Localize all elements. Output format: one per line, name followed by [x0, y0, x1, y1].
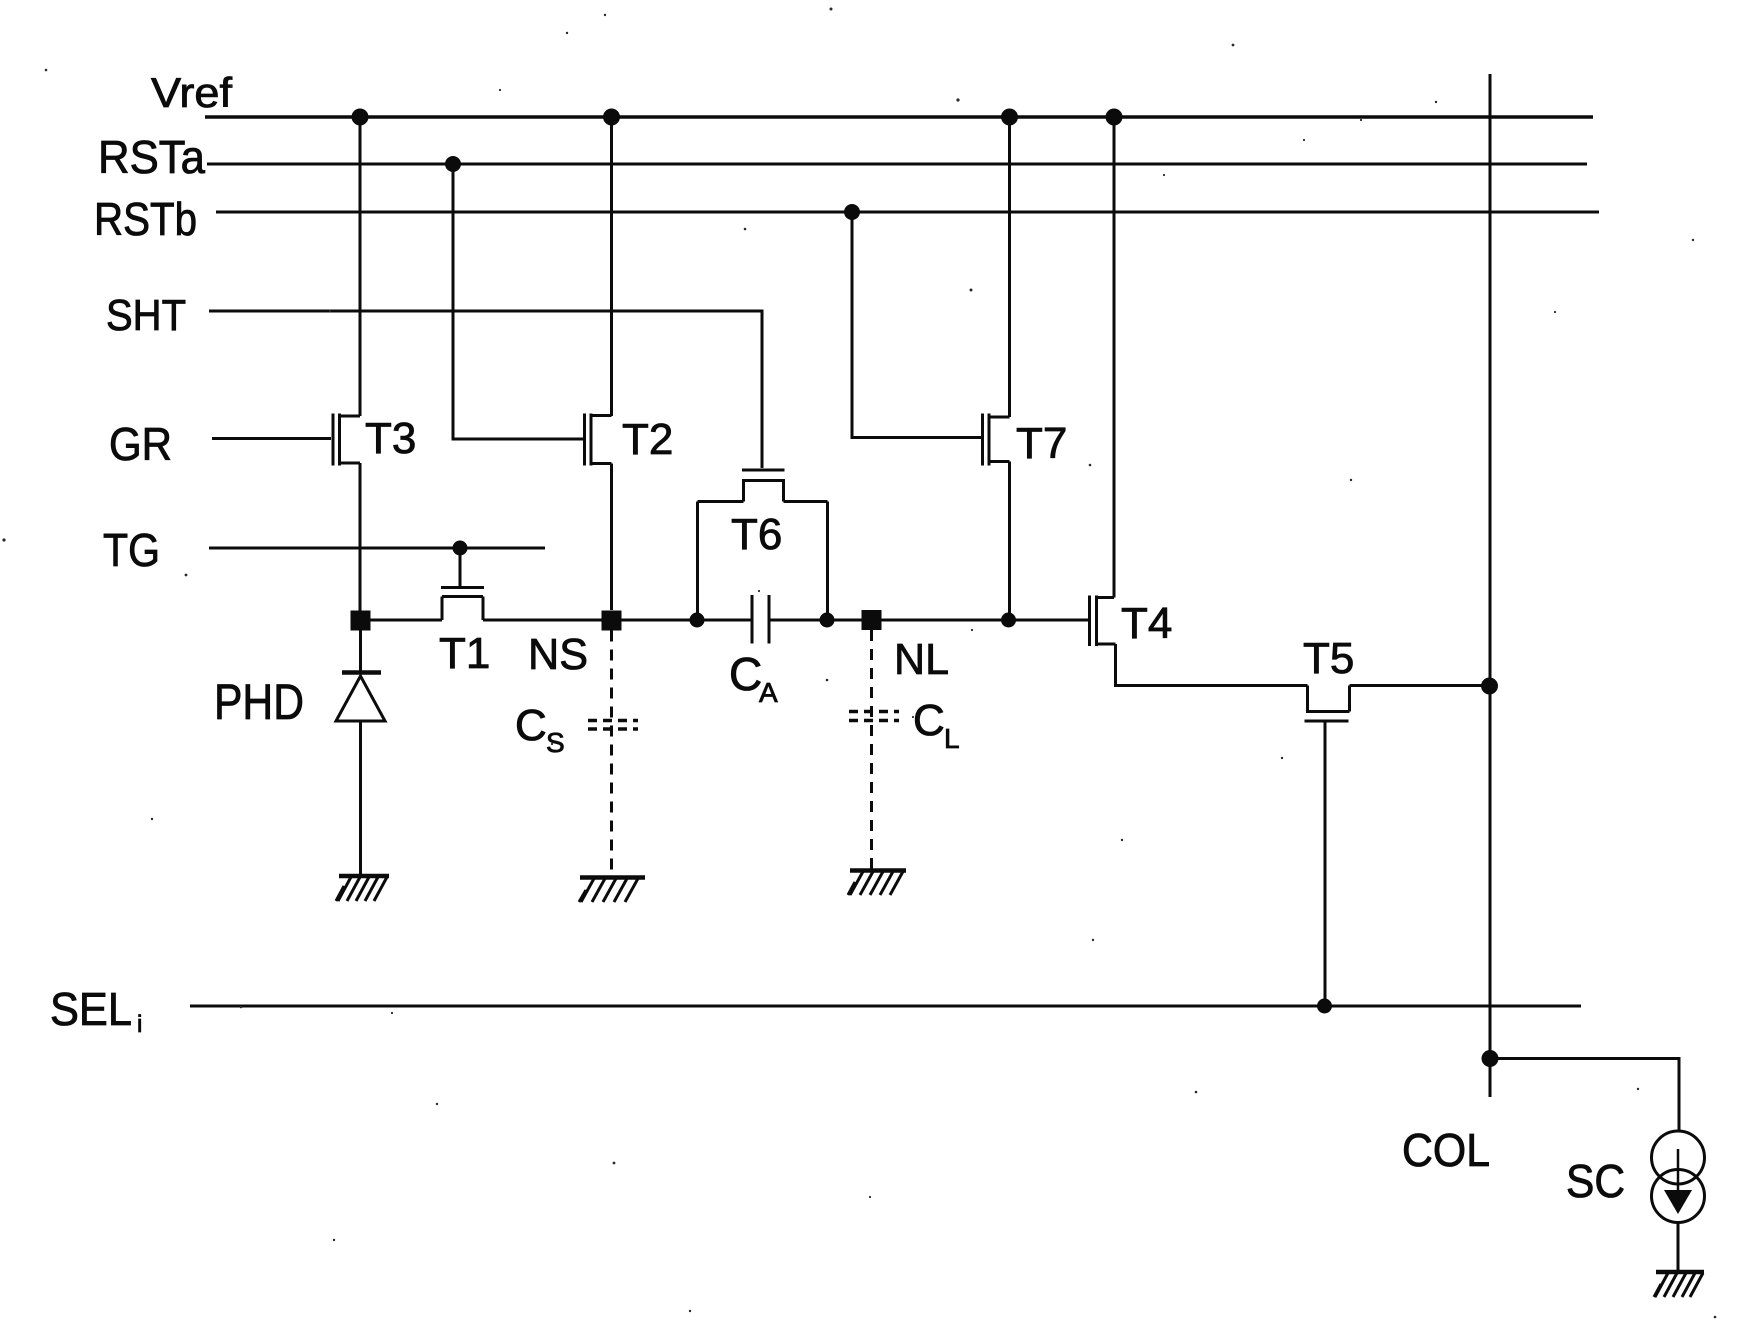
- svg-text:T1: T1: [439, 629, 490, 678]
- junction Vref-T3 column: [352, 109, 369, 126]
- transistor T6: [698, 470, 828, 620]
- svg-text:L: L: [944, 723, 960, 754]
- wire RSTb to T7 gate: [852, 212, 983, 438]
- svg-text:SHT: SHT: [106, 291, 186, 340]
- svg-text:SEL: SEL: [50, 983, 132, 1035]
- junction T6 right leg: [820, 613, 835, 628]
- svg-text:C: C: [913, 696, 945, 745]
- svg-text:T4: T4: [1121, 599, 1172, 648]
- junction Vref-T7 column: [1001, 109, 1018, 126]
- wire T4 source to T5: [1116, 644, 1308, 686]
- ground SC: [1654, 1272, 1704, 1297]
- wire Vref to T2 drain: [610, 117, 613, 416]
- wire T5 gate to SEL: [1324, 721, 1327, 1006]
- transistor T3: [333, 414, 360, 466]
- svg-text:S: S: [546, 727, 565, 758]
- wire SELi bus: [190, 1005, 1581, 1008]
- capacitor CS: [588, 631, 638, 877]
- svg-text:i: i: [137, 1011, 142, 1038]
- wire node row PHD to T1: [371, 619, 443, 622]
- wire T2 source to NS node: [610, 464, 613, 611]
- wire node row CA to NL: [769, 619, 862, 622]
- wire SHT bus to T6 gate: [209, 311, 762, 468]
- svg-text:GR: GR: [109, 418, 172, 470]
- wire Vref bus: [205, 115, 1593, 119]
- wire T7 source to node row: [1008, 462, 1011, 621]
- ground CL: [848, 871, 906, 896]
- wire RSTa to T2 gate: [453, 164, 585, 439]
- ground CS: [579, 878, 645, 903]
- wire Vref to T3 drain: [359, 117, 362, 416]
- junction TG tap: [453, 541, 468, 556]
- junction Vref-T2 column: [603, 109, 620, 126]
- wire COL to SC: [1490, 1059, 1679, 1132]
- node PHD square: [351, 611, 371, 631]
- junction T5-COL: [1481, 678, 1498, 695]
- svg-text:Vref: Vref: [151, 69, 232, 116]
- transistor T2: [585, 414, 612, 466]
- junction T5 gate SEL: [1317, 999, 1332, 1014]
- wire T3 source to PHD node: [359, 463, 362, 611]
- wire Vref to T7 drain: [1008, 117, 1011, 417]
- svg-text:PHD: PHD: [214, 674, 304, 730]
- svg-text:COL: COL: [1402, 1124, 1490, 1176]
- svg-text:T5: T5: [1303, 634, 1354, 683]
- wire node row NL to T4 gate: [882, 619, 1090, 622]
- capacitor CL: [849, 630, 899, 869]
- junction COL-SC: [1482, 1050, 1499, 1067]
- svg-text:SC: SC: [1566, 1155, 1625, 1207]
- transistor T4: [1090, 596, 1116, 647]
- node NL square: [862, 610, 882, 630]
- svg-text:C: C: [515, 701, 547, 750]
- junction T7 source node: [1001, 613, 1016, 628]
- current source SC: [1652, 1131, 1705, 1223]
- wire COL column line: [1489, 74, 1492, 1097]
- svg-text:TG: TG: [103, 524, 160, 576]
- transistor T5: [1305, 686, 1350, 722]
- capacitor CA: [752, 595, 769, 644]
- wire SC to ground: [1677, 1223, 1680, 1273]
- junction T6 left leg: [690, 613, 705, 628]
- wire node row T1 to NS: [483, 619, 602, 622]
- transistor T1: [441, 548, 484, 620]
- svg-text:T6: T6: [731, 510, 782, 559]
- junction RSTb tap: [844, 204, 860, 220]
- ground PHD: [336, 876, 389, 901]
- wire GR to T3 gate: [212, 437, 331, 440]
- svg-text:NS: NS: [528, 630, 588, 679]
- svg-text:T7: T7: [1016, 419, 1067, 468]
- node NS square: [602, 611, 622, 631]
- wire RSTa bus: [207, 163, 1587, 166]
- svg-text:T2: T2: [622, 415, 673, 464]
- junction Vref-T4 column: [1106, 109, 1123, 126]
- wire T5 drain to COL: [1350, 684, 1491, 687]
- wire TG bus: [209, 547, 545, 550]
- wire node row NS to CA: [622, 619, 753, 622]
- svg-text:C: C: [729, 648, 762, 700]
- photodiode PHD: [336, 630, 385, 876]
- transistor T7: [983, 414, 1010, 466]
- wire Vref to T4 drain: [1113, 117, 1116, 598]
- svg-text:RSTa: RSTa: [98, 131, 205, 183]
- svg-text:T3: T3: [365, 414, 416, 463]
- svg-text:A: A: [759, 677, 778, 708]
- svg-text:RSTb: RSTb: [94, 193, 197, 245]
- wire RSTb bus: [216, 211, 1599, 214]
- svg-text:NL: NL: [894, 635, 949, 684]
- junction RSTa tap: [445, 156, 461, 172]
